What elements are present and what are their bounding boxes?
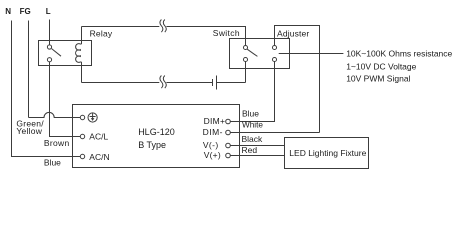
switch contacts box	[230, 39, 290, 69]
wire adjuster loop (top-right contact up, over, down to DIM- white wire)	[275, 26, 320, 133]
svg-text:1~10V DC Voltage: 1~10V DC Voltage	[346, 61, 416, 71]
relay contact top circle	[47, 45, 51, 49]
svg-text:Brown: Brown	[44, 138, 70, 148]
relay contact bottom circle	[47, 58, 51, 62]
svg-text:Red: Red	[242, 145, 258, 155]
wire brown (relay contact to AC/L)	[50, 62, 81, 137]
break symbol bottom wire	[160, 76, 166, 89]
wire L (AC line, runs down to relay contact)	[49, 20, 51, 45]
wire to dimming source note	[279, 53, 344, 55]
svg-text:V(-): V(-)	[203, 140, 219, 150]
HLG-120 driver box	[73, 105, 240, 168]
svg-text:V(+): V(+)	[204, 150, 221, 160]
switch contact bottom-left circle	[243, 57, 247, 61]
svg-text:Switch: Switch	[213, 28, 240, 38]
svg-text:Blue: Blue	[44, 158, 61, 168]
AC/L terminal	[80, 134, 84, 138]
svg-text:LED Lighting Fixture: LED Lighting Fixture	[289, 148, 366, 158]
svg-text:FG: FG	[20, 7, 31, 16]
svg-text:DIM-: DIM-	[203, 127, 223, 137]
svg-text:Blue: Blue	[242, 108, 259, 118]
switch contact bottom-right circle	[272, 57, 276, 61]
earth terminal circle	[80, 115, 84, 119]
wire blue DIM+ (to switch bottom-right contact)	[230, 61, 274, 121]
svg-text:White: White	[242, 121, 263, 130]
svg-text:10V PWM Signal: 10V PWM Signal	[346, 74, 410, 84]
wire N (AC neutral, runs down then right to AC/N)	[12, 21, 81, 157]
svg-text:Adjuster: Adjuster	[277, 28, 309, 38]
svg-text:Black: Black	[242, 134, 264, 144]
svg-text:Relay: Relay	[90, 29, 113, 39]
break symbol top wire	[160, 20, 166, 33]
svg-text:10K~100K Ohms resistance: 10K~100K Ohms resistance	[346, 49, 452, 59]
svg-text:B Type: B Type	[138, 140, 166, 150]
svg-text:HLG-120: HLG-120	[138, 127, 175, 137]
wire green/yellow (FG to earth terminal, hops over L wire)	[29, 112, 81, 117]
switch contact top-left circle	[243, 45, 247, 49]
wire black V(-)	[230, 145, 284, 147]
wire red V(+)	[230, 155, 284, 157]
wire bottom (relay coil to battery to switch)	[82, 61, 246, 82]
wire FG (frame ground, runs down to green/yellow wire)	[28, 21, 30, 118]
svg-text:N: N	[5, 7, 11, 16]
svg-text:L: L	[46, 7, 51, 16]
battery (DC source)	[213, 76, 217, 90]
earth symbol	[88, 113, 97, 122]
svg-text:AC/L: AC/L	[89, 132, 108, 142]
relay box	[39, 41, 92, 66]
switch lever	[247, 49, 257, 56]
wire top (relay coil to switch)	[82, 27, 246, 46]
LED lighting fixture box	[285, 138, 369, 169]
svg-text:Yellow: Yellow	[16, 126, 42, 136]
svg-text:AC/N: AC/N	[89, 152, 109, 162]
AC/N terminal	[80, 154, 84, 158]
relay coil	[76, 27, 82, 83]
switch contact top-right circle	[272, 45, 276, 49]
svg-text:DIM+: DIM+	[204, 116, 226, 126]
relay contact lever	[52, 49, 61, 57]
wire white DIM-	[230, 132, 319, 134]
